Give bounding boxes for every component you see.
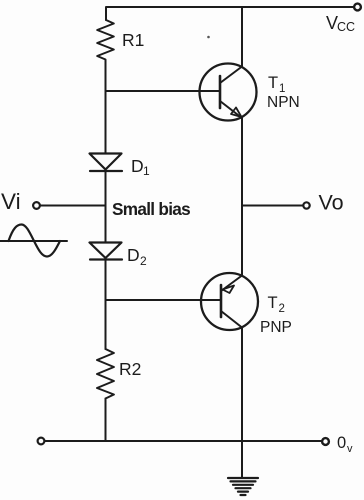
label Vi <box>1 189 21 214</box>
wire: D2 to R2 <box>105 260 107 350</box>
label PNP <box>260 319 292 336</box>
svg-text:CC: CC <box>337 20 355 34</box>
wire: T1 base <box>106 90 221 92</box>
label T1 <box>268 74 285 95</box>
diode D2 <box>90 243 123 260</box>
wire: Vi input <box>40 205 106 207</box>
svg-text:2: 2 <box>279 303 285 315</box>
label 0v <box>337 434 353 455</box>
svg-text:D: D <box>131 156 144 176</box>
ground <box>228 478 258 495</box>
svg-text:R1: R1 <box>122 30 144 50</box>
svg-text:Small bias: Small bias <box>112 199 190 219</box>
terminal Vo <box>303 202 309 208</box>
wire: R2 bottom to 0v rail <box>105 399 107 442</box>
transistor T2 emitter with arrow <box>221 276 242 294</box>
terminal Vi <box>33 202 40 209</box>
svg-text:v: v <box>347 443 353 455</box>
svg-text:Vo: Vo <box>319 191 344 215</box>
label D1 <box>131 156 150 178</box>
svg-text:T: T <box>268 294 278 312</box>
label T2 <box>268 294 285 315</box>
label NPN <box>267 94 300 111</box>
wire: T2 collector to ground <box>241 441 243 477</box>
resistor R2 <box>97 349 114 399</box>
label Small bias <box>112 199 190 219</box>
label Vo <box>319 191 344 215</box>
label D2 <box>127 245 147 268</box>
transistor Q1 T1 circle <box>200 64 257 121</box>
svg-text:T: T <box>268 74 278 92</box>
input sine wave <box>0 225 67 257</box>
label R2 <box>119 359 141 379</box>
wire: 0v bottom rail <box>45 440 322 442</box>
wire: R1 bottom to D1 <box>105 62 107 153</box>
terminal 0v left <box>38 438 45 445</box>
transistor T2 collector <box>221 311 242 441</box>
terminal VCC <box>354 4 361 11</box>
svg-text:D: D <box>127 245 140 265</box>
label VCC <box>326 13 355 34</box>
svg-text:R2: R2 <box>119 359 141 379</box>
wire: VCC top rail <box>106 7 353 20</box>
wire: D1 to D2 <box>105 171 107 242</box>
terminal 0v right <box>322 438 329 445</box>
svg-text:NPN: NPN <box>267 94 300 111</box>
svg-text:2: 2 <box>140 254 147 268</box>
resistor R1 <box>97 20 114 62</box>
svg-text:Vi: Vi <box>1 189 21 214</box>
transistor T1 base bar <box>219 76 222 108</box>
transistor T2 base bar <box>220 285 223 317</box>
diode D1 <box>90 154 123 172</box>
wire: T1 emitter to T2 emitter (output node) <box>241 118 243 276</box>
svg-text:PNP: PNP <box>260 319 292 336</box>
wire: T2 base <box>106 299 222 301</box>
transistor Q2 T2 circle <box>201 273 258 330</box>
svg-text:1: 1 <box>143 164 150 178</box>
svg-text:0: 0 <box>337 434 346 452</box>
wire: Vo tap <box>242 205 303 207</box>
label R1 <box>122 30 144 50</box>
scan speck <box>207 36 210 39</box>
transistor T1 collector <box>220 7 242 83</box>
transistor T1 emitter with arrow <box>220 101 242 117</box>
